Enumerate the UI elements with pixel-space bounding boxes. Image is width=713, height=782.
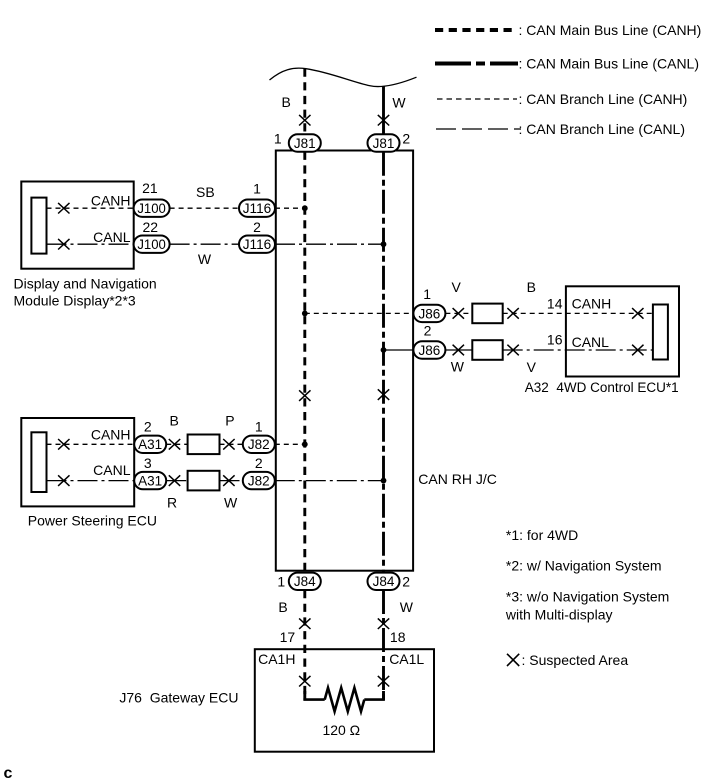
connector block inside 4WD ECU — [653, 305, 668, 360]
connector J86 pin 1 — [413, 305, 445, 322]
connector J82 pin 2 — [243, 472, 275, 489]
suspected area X on CANL bus mid box — [378, 389, 389, 400]
wire to resistor right — [364, 698, 385, 701]
wire CANL main bus lower segment — [382, 590, 385, 700]
svg-text:: CAN Branch Line (CANH): : CAN Branch Line (CANH) — [519, 91, 688, 107]
connector J100 pin 21 — [134, 200, 170, 217]
suspected area X on CANH above J81 — [299, 115, 310, 126]
connector J86 pin 2 — [413, 341, 445, 358]
connector block inside Power Steering ECU — [31, 432, 46, 492]
svg-text:: CAN Main Bus Line (CANH): : CAN Main Bus Line (CANH) — [519, 22, 702, 38]
svg-text:3: 3 — [144, 455, 152, 471]
legend line CAN Main Bus Line (CANH) — [435, 28, 516, 32]
svg-text:*3: w/o Navigation System: *3: w/o Navigation System — [506, 589, 669, 605]
svg-text:B: B — [527, 279, 536, 295]
connector J116 pin 2 — [239, 236, 275, 253]
suspected area X before J82 pin2 — [223, 475, 234, 486]
svg-text:CANH: CANH — [572, 295, 612, 311]
wire CANL inside PS ECU — [47, 480, 135, 482]
legend line CAN Main Bus Line (CANL) — [435, 62, 518, 66]
svg-text:17: 17 — [280, 629, 296, 645]
wire CANL main bus inside J/C — [382, 152, 385, 573]
suspected area X PS CANL — [58, 475, 69, 486]
svg-text:CANL: CANL — [93, 229, 131, 245]
connector A31 pin 3 — [134, 472, 166, 489]
junction dot CANL at PS branch — [381, 478, 387, 484]
svg-text:2: 2 — [255, 455, 263, 471]
resistor 120 ohm — [325, 688, 365, 712]
suspected area X on CANL below J84 — [378, 618, 389, 629]
svg-text:V: V — [452, 279, 462, 295]
legend line CAN Branch Line (CANH) — [437, 98, 517, 100]
connector J82 pin 1 — [243, 436, 275, 453]
svg-text:CANL: CANL — [93, 462, 131, 478]
svg-text:: Suspected Area: : Suspected Area — [522, 652, 629, 668]
connector J100 pin 22 — [134, 236, 170, 253]
connector A31 pin 2 — [134, 436, 166, 453]
wire CANH main bus lower segment — [303, 590, 306, 700]
svg-text:22: 22 — [143, 219, 159, 235]
svg-text:1: 1 — [255, 419, 263, 435]
wire CANL solid stub to corner — [382, 691, 385, 700]
svg-text:: CAN Main Bus Line (CANL): : CAN Main Bus Line (CANL) — [519, 56, 700, 72]
svg-text:J100: J100 — [137, 201, 166, 216]
wire CANH filter to J82 — [220, 443, 243, 445]
svg-text:W: W — [400, 599, 414, 615]
junction block CAN RH J/C box — [276, 151, 413, 571]
suspected area X after J86 pin1 — [453, 308, 464, 319]
wire CANL branch J82 to bus — [275, 480, 384, 482]
svg-text:2: 2 — [402, 574, 410, 590]
svg-text:B: B — [170, 413, 179, 429]
suspected area X inside 4WD ECU CANL — [632, 345, 643, 356]
wire CANL main bus upper segment — [382, 87, 385, 135]
suspected area X Display CANH — [58, 203, 69, 214]
gateway ECU box J76 — [255, 649, 434, 752]
svg-text:CA1L: CA1L — [389, 651, 424, 667]
suspected area X before J82 pin1 — [223, 439, 234, 450]
suspected area X Display CANL — [58, 239, 69, 250]
noise filter 4WD CANH — [472, 304, 502, 324]
note suspected area symbol — [507, 654, 519, 666]
wire CANH inside Display ECU — [47, 207, 134, 209]
svg-text:A31: A31 — [138, 437, 162, 452]
svg-text:J116: J116 — [243, 201, 272, 216]
junction dot CANH at PS branch — [302, 441, 308, 447]
legend line CAN Branch Line (CANL) — [436, 128, 521, 130]
suspected area X on CANH below J84 — [299, 618, 310, 629]
ECU box 4WD Control ECU — [566, 286, 679, 376]
svg-text:21: 21 — [142, 180, 158, 196]
junction dot CANH at Display branch — [302, 205, 308, 211]
svg-text:CA1H: CA1H — [258, 651, 295, 667]
connector J116 pin 1 — [239, 200, 275, 217]
svg-text:P: P — [225, 413, 234, 429]
svg-text:120 Ω: 120 Ω — [322, 722, 360, 738]
svg-text:V: V — [527, 359, 537, 375]
wire to resistor left — [303, 698, 324, 701]
svg-text:B: B — [282, 94, 291, 110]
suspected area X after filter CANL — [507, 345, 518, 356]
svg-text:J86: J86 — [419, 343, 441, 358]
svg-text:CANH: CANH — [91, 193, 131, 209]
connector J81 pin 1 — [289, 134, 321, 151]
wire CANH J86 to filter — [445, 312, 472, 314]
svg-text:2: 2 — [424, 323, 432, 339]
noise filter PS CANH — [188, 435, 220, 455]
junction dot CANH at 4WD branch — [302, 311, 308, 317]
svg-text:J84: J84 — [294, 574, 316, 589]
svg-text:CANL: CANL — [572, 334, 610, 350]
suspected area X on CANH bus mid box — [299, 390, 310, 401]
suspected area X after A31 pin2 — [169, 439, 180, 450]
svg-text:J76 Gateway ECU: J76 Gateway ECU — [119, 689, 238, 705]
svg-text:J116: J116 — [243, 237, 272, 252]
wire CANL branch J116 to bus — [275, 243, 384, 245]
suspected area X on CA1H inside gateway — [299, 676, 310, 687]
wire CANH branch bus to J86 — [305, 312, 414, 314]
suspected area X inside 4WD ECU CANH — [632, 308, 643, 319]
ECU box Power Steering — [21, 418, 134, 506]
svg-text:1: 1 — [274, 130, 282, 146]
svg-text:W: W — [224, 494, 238, 510]
svg-text:16: 16 — [547, 332, 563, 348]
svg-text:CAN RH J/C: CAN RH J/C — [418, 471, 497, 487]
svg-text:18: 18 — [390, 629, 406, 645]
connector J81 pin 2 — [368, 134, 400, 151]
suspected area X on CA1L inside gateway — [378, 676, 389, 687]
connector block inside Display ECU — [31, 198, 46, 254]
wire CANH main bus inside J/C — [303, 152, 306, 573]
suspected area X on CANL above J81 — [378, 115, 389, 126]
wire CANH branch J82 to bus — [275, 443, 305, 445]
wire CANH inside PS ECU — [47, 443, 135, 445]
svg-text:W: W — [198, 251, 212, 267]
junction dot CANL at Display branch — [381, 241, 387, 247]
svg-text:14: 14 — [547, 295, 563, 311]
svg-text:W: W — [392, 95, 406, 111]
wire CANL branch bus to J86 — [384, 349, 414, 351]
svg-text:with Multi-display: with Multi-display — [505, 606, 613, 622]
svg-text:1: 1 — [423, 286, 431, 302]
wire CANL filter to ECU connector — [503, 349, 653, 351]
svg-text:: CAN Branch Line (CANL): : CAN Branch Line (CANL) — [519, 121, 686, 137]
svg-text:J86: J86 — [419, 306, 441, 321]
svg-text:J82: J82 — [248, 474, 270, 489]
svg-text:R: R — [167, 494, 177, 510]
svg-text:*1: for 4WD: *1: for 4WD — [506, 527, 578, 543]
wire CANL filter to J82 — [220, 480, 243, 482]
svg-text:Module Display*2*3: Module Display*2*3 — [14, 293, 136, 309]
wire CANL A31 to filter — [166, 480, 187, 482]
wire CANL J86 to filter — [445, 349, 472, 351]
svg-text:Power Steering ECU: Power Steering ECU — [28, 512, 157, 528]
wire CANH A31 to filter — [166, 443, 187, 445]
svg-text:J100: J100 — [137, 237, 166, 252]
svg-text:c: c — [4, 765, 13, 782]
suspected area X after A31 pin3 — [169, 475, 180, 486]
svg-text:*2: w/ Navigation System: *2: w/ Navigation System — [506, 557, 662, 573]
svg-text:A32 4WD Control ECU*1: A32 4WD Control ECU*1 — [525, 380, 679, 395]
svg-text:2: 2 — [253, 219, 261, 235]
svg-text:J81: J81 — [373, 136, 395, 151]
wire CANH main bus upper segment — [303, 69, 306, 135]
svg-text:CANH: CANH — [91, 427, 131, 443]
junction dot CANL at 4WD branch — [381, 347, 387, 353]
suspected area X PS CANH — [58, 439, 69, 450]
svg-text:2: 2 — [144, 419, 152, 435]
wire CANH filter to ECU connector — [503, 312, 653, 314]
connector J84 pin 1 — [289, 573, 321, 590]
svg-text:W: W — [451, 359, 465, 375]
suspected area X after J86 pin2 — [453, 345, 464, 356]
svg-text:SB: SB — [196, 184, 215, 200]
svg-text:J84: J84 — [373, 574, 395, 589]
svg-text:B: B — [278, 599, 287, 615]
wire SB from J100 to J116 — [170, 207, 239, 209]
svg-text:J81: J81 — [294, 136, 316, 151]
svg-text:1: 1 — [253, 180, 261, 196]
noise filter 4WD CANL — [472, 340, 502, 360]
svg-text:A31: A31 — [138, 474, 162, 489]
wire W from J100 to J116 — [170, 243, 239, 245]
suspected area X after filter CANH — [507, 308, 518, 319]
wire CANH solid stub to corner — [303, 691, 306, 700]
noise filter PS CANL — [188, 471, 220, 491]
svg-text:2: 2 — [402, 130, 410, 146]
svg-text:Display and Navigation: Display and Navigation — [14, 276, 157, 292]
wire CANL inside Display ECU — [47, 243, 134, 245]
wire CANH branch J116 to bus — [275, 207, 305, 209]
wire harness break wave — [270, 68, 417, 86]
svg-text:J82: J82 — [248, 437, 270, 452]
connector J84 pin 2 — [368, 573, 400, 590]
ECU box Display and Navigation Module Display — [21, 182, 133, 269]
svg-text:1: 1 — [277, 574, 285, 590]
